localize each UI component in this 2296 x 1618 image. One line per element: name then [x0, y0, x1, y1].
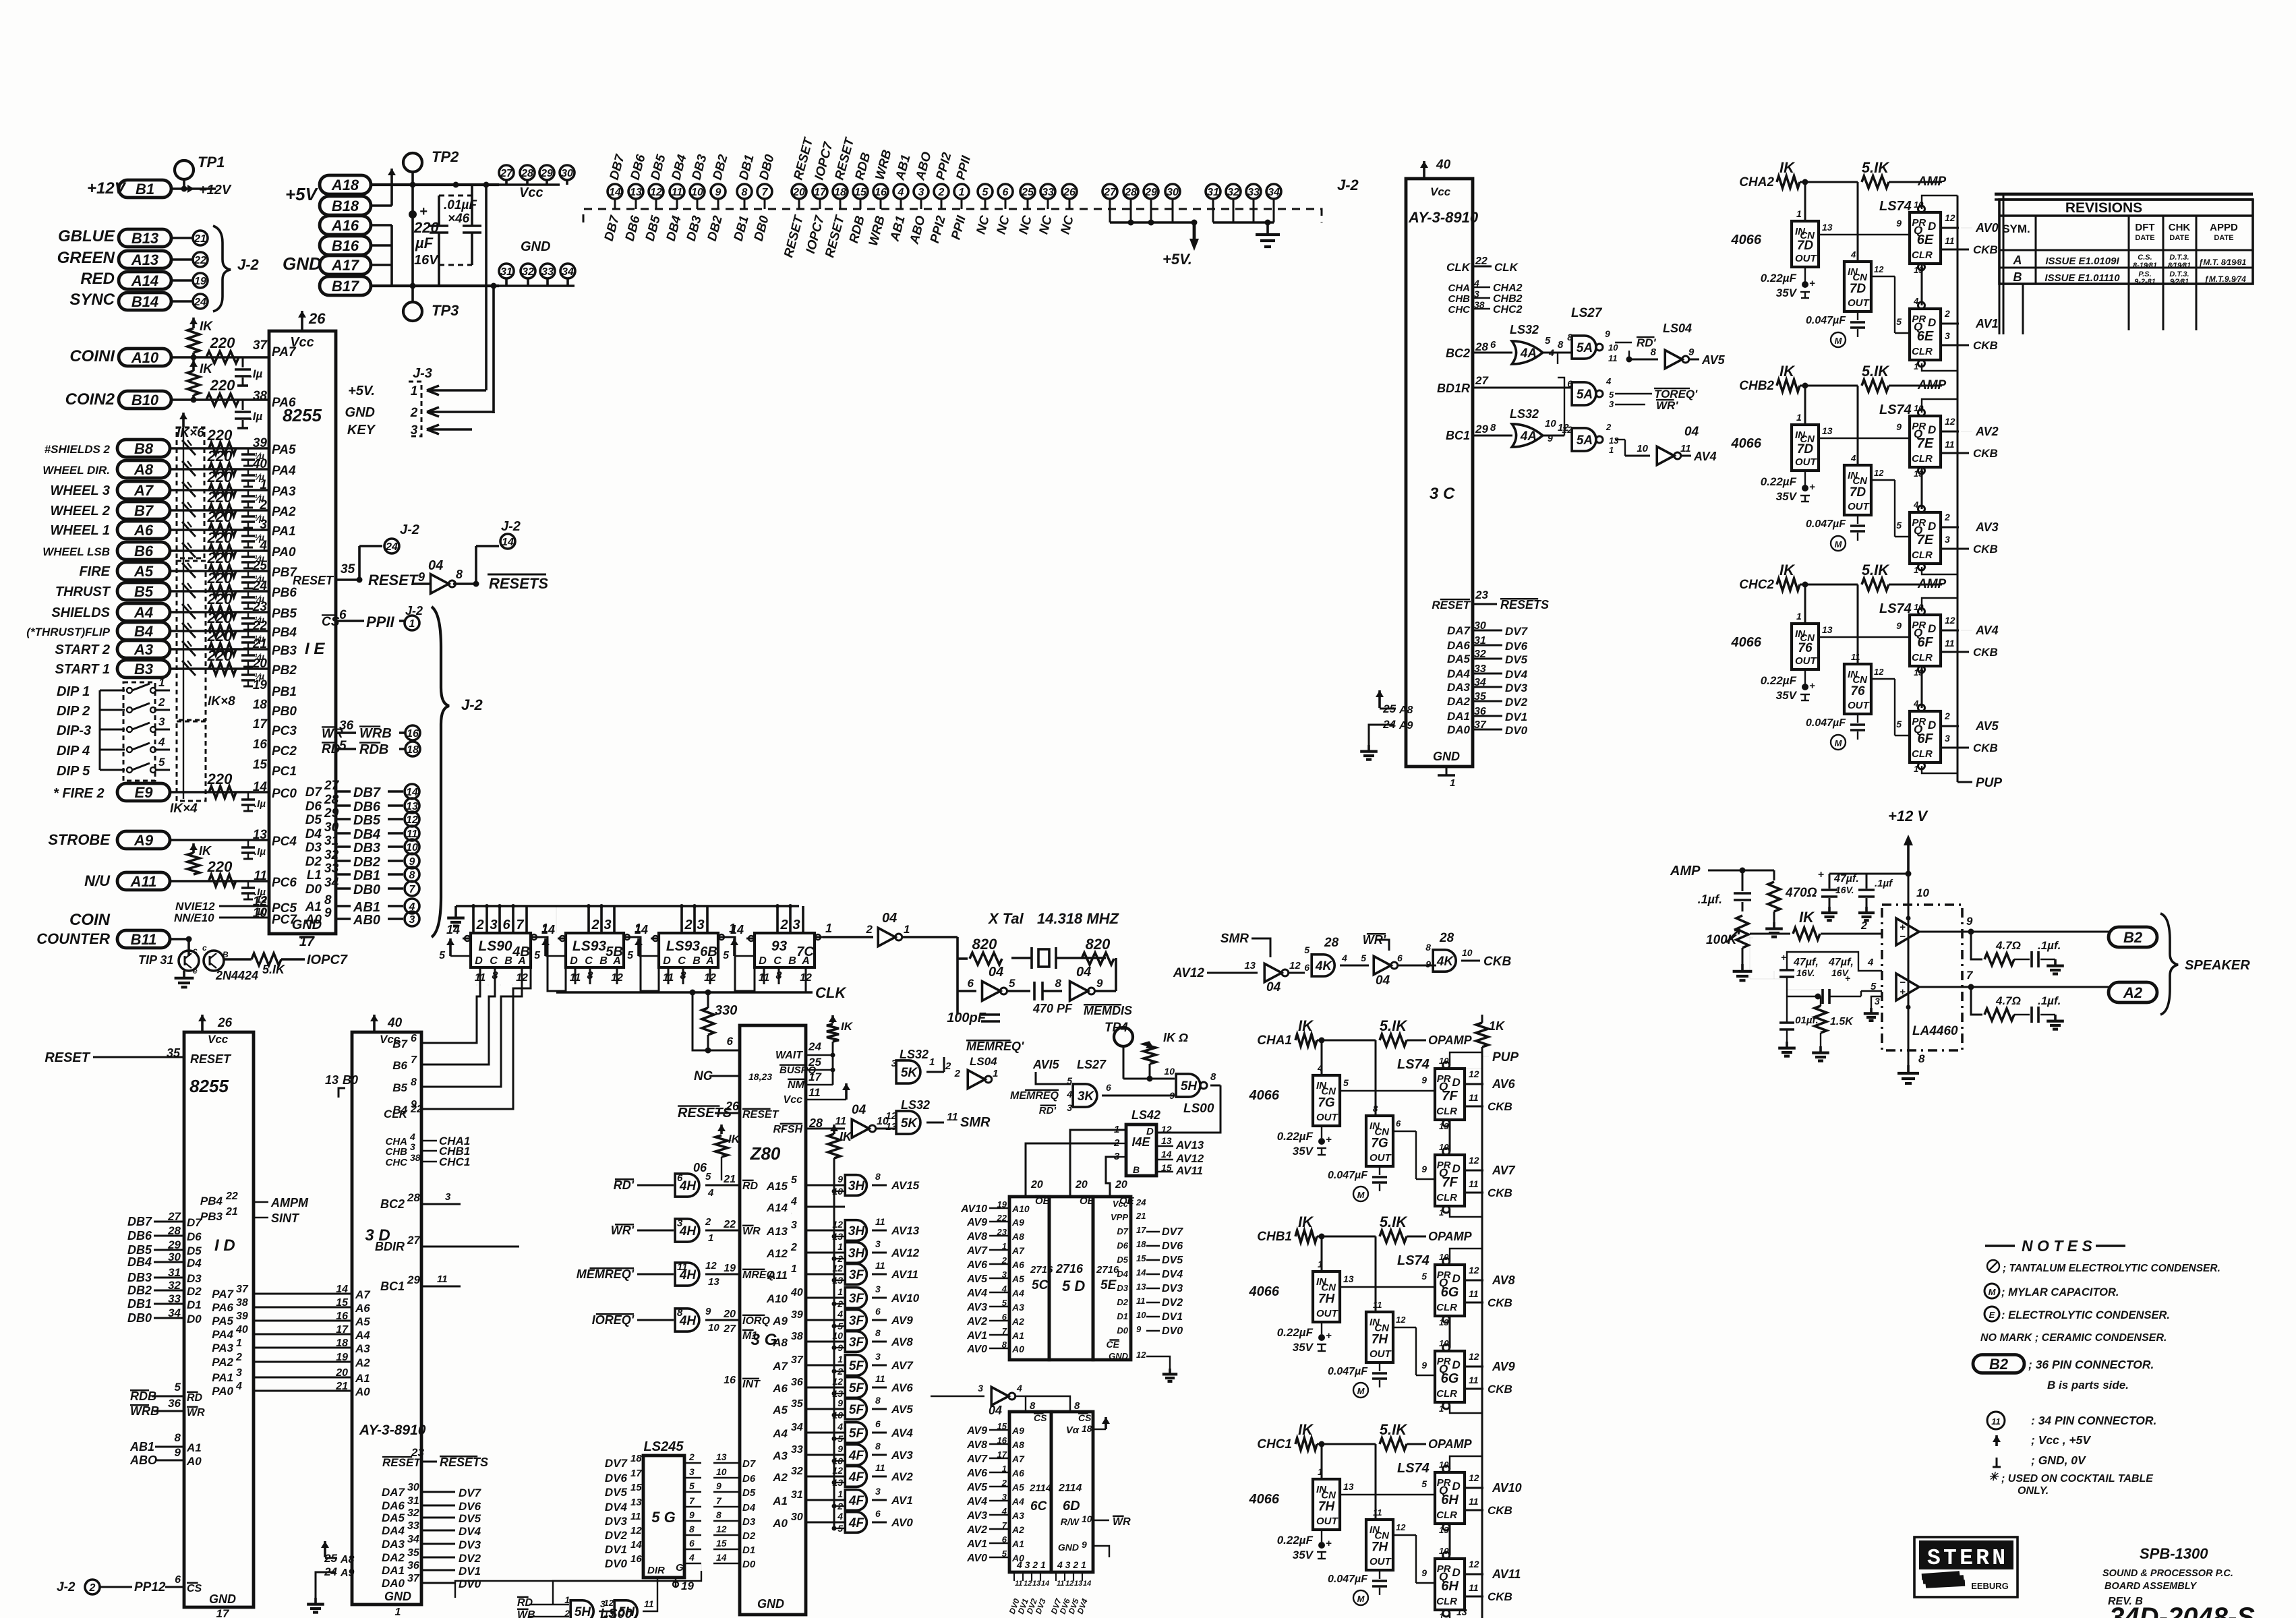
svg-text:11: 11 — [1469, 1178, 1479, 1189]
svg-text:RESET: RESET — [368, 572, 419, 589]
svg-text:#SHIELDS 2: #SHIELDS 2 — [45, 443, 111, 456]
svg-text:D: D — [1452, 1162, 1461, 1175]
svg-text:4: 4 — [707, 1187, 714, 1199]
svg-text:D3: D3 — [742, 1516, 756, 1528]
svg-text:5: 5 — [982, 187, 989, 198]
J-2 pin 24 — [384, 539, 399, 553]
svg-text:A11: A11 — [130, 873, 157, 890]
svg-text:17: 17 — [630, 1468, 642, 1479]
svg-text:1.5K: 1.5K — [1830, 1016, 1854, 1027]
svg-text:3: 3 — [791, 1220, 797, 1231]
svg-text:DA5: DA5 — [382, 1511, 405, 1524]
svg-text:B5: B5 — [134, 583, 154, 600]
svg-text:28: 28 — [1124, 187, 1137, 198]
svg-text:7: 7 — [716, 1495, 722, 1506]
flip-flop 6Fa — [1910, 615, 1941, 666]
svg-text:AV3: AV3 — [1975, 520, 1999, 534]
svg-text:7: 7 — [689, 1495, 695, 1506]
svg-text:AV11: AV11 — [891, 1268, 918, 1281]
svg-text:D5: D5 — [305, 813, 322, 827]
svg-text:4: 4 — [837, 1421, 843, 1432]
svg-text:8: 8 — [1558, 339, 1564, 351]
svg-text:AV4: AV4 — [1975, 624, 1999, 637]
svg-text:38: 38 — [410, 1152, 421, 1163]
svg-text:A2: A2 — [772, 1471, 788, 1484]
op-amp B — [1896, 973, 1919, 1000]
svg-text:WR': WR' — [1656, 399, 1678, 412]
vcc arrow z80 pin11 — [845, 1083, 848, 1100]
svg-text:D: D — [1928, 719, 1936, 731]
svg-text:CHB1: CHB1 — [1257, 1230, 1292, 1244]
svg-text:CKB: CKB — [1488, 1100, 1512, 1113]
svg-text:8: 8 — [1055, 977, 1062, 990]
svg-text:15: 15 — [997, 1421, 1007, 1431]
svg-text:OUT: OUT — [1370, 1348, 1392, 1360]
svg-text:¹⁄µ: ¹⁄µ — [254, 651, 264, 662]
gate 4F AV1 — [845, 1490, 866, 1511]
svg-text:RD': RD' — [1039, 1105, 1057, 1116]
svg-text:9: 9 — [1896, 218, 1902, 229]
svg-text:1: 1 — [1796, 412, 1802, 423]
test point TP3 — [403, 302, 422, 321]
svg-text:IOPC7: IOPC7 — [307, 953, 348, 967]
svg-text:AB1: AB1 — [129, 1440, 154, 1454]
svg-text:9: 9 — [1425, 959, 1431, 969]
svg-text:LS74: LS74 — [1397, 1057, 1430, 1072]
svg-text:IK: IK — [728, 1133, 741, 1145]
svg-text:AV3: AV3 — [966, 1302, 987, 1313]
svg-text:8: 8 — [689, 1524, 695, 1534]
svg-text:WHEEL 2: WHEEL 2 — [50, 504, 110, 518]
pin 21 — [193, 231, 208, 245]
IC 7C 93 counter — [755, 933, 815, 967]
svg-text:DV4: DV4 — [605, 1501, 628, 1514]
svg-text:31: 31 — [1207, 187, 1219, 198]
svg-text:E: E — [1989, 1310, 1995, 1320]
svg-text:D: D — [1452, 1076, 1461, 1089]
svg-text:AV6: AV6 — [1492, 1077, 1516, 1091]
svg-text:AV6: AV6 — [966, 1468, 987, 1479]
svg-text:15: 15 — [854, 187, 867, 198]
svg-text:PA6: PA6 — [272, 396, 296, 410]
capacitor .1u B8 — [247, 448, 249, 454]
svg-text:21: 21 — [335, 1381, 348, 1392]
svg-text:4: 4 — [1867, 957, 1874, 968]
svg-text:7H: 7H — [1372, 1333, 1389, 1347]
brace J-2 outputs — [432, 607, 449, 937]
svg-text:GND: GND — [209, 1592, 236, 1606]
svg-text:PC6: PC6 — [272, 876, 297, 890]
svg-text:11: 11 — [808, 1086, 821, 1099]
svg-text:A1: A1 — [772, 1495, 788, 1507]
svg-text:IK: IK — [200, 362, 213, 376]
svg-text:5F: 5F — [849, 1427, 865, 1441]
svg-text:35V: 35V — [1776, 490, 1798, 503]
svg-text:PP12: PP12 — [134, 1580, 166, 1594]
flip-flop 7F — [1435, 1069, 1465, 1120]
svg-text:11: 11 — [630, 1511, 641, 1522]
svg-text:J-2: J-2 — [400, 522, 419, 537]
svg-text:5.IK: 5.IK — [1862, 363, 1890, 380]
svg-text:1: 1 — [837, 1354, 843, 1365]
svg-text:AMPM: AMPM — [270, 1196, 309, 1209]
svg-text:1: 1 — [158, 676, 165, 689]
svg-text:PB3: PB3 — [272, 644, 297, 658]
svg-text:A4: A4 — [1011, 1496, 1024, 1507]
svg-text:D1: D1 — [187, 1298, 202, 1311]
svg-text:B4: B4 — [134, 623, 153, 640]
svg-text:−: − — [1900, 931, 1906, 942]
svg-text:CKB: CKB — [1488, 1590, 1512, 1603]
svg-text:35: 35 — [341, 562, 355, 576]
svg-text:DV6: DV6 — [1505, 640, 1528, 653]
label CLK wire — [556, 991, 813, 994]
svg-text:B: B — [504, 955, 512, 967]
svg-text:ABO: ABO — [913, 150, 935, 182]
svg-text:47µf,: 47µf, — [1828, 957, 1854, 968]
svg-text:0.22µF: 0.22µF — [1761, 475, 1797, 488]
IC 6C 2114 — [1009, 1412, 1051, 1572]
svg-text:A7: A7 — [772, 1360, 788, 1373]
gate 5F AV5 — [845, 1399, 866, 1420]
svg-text:1: 1 — [409, 618, 415, 630]
IC 3C AY-3-8910 — [1406, 179, 1473, 767]
svg-text:100pF: 100pF — [947, 1011, 987, 1025]
svg-text:B11: B11 — [131, 931, 157, 948]
svg-text:PPII: PPII — [366, 613, 394, 630]
svg-text:8: 8 — [411, 1077, 417, 1088]
svg-text:9: 9 — [1896, 620, 1902, 631]
svg-text:36: 36 — [791, 1377, 803, 1388]
svg-text:12: 12 — [832, 1376, 843, 1387]
svg-text:A4: A4 — [355, 1329, 370, 1342]
J-2 pin 9 — [405, 853, 419, 868]
svg-text:PC2: PC2 — [272, 744, 297, 758]
resistor array 1Kx6 box — [177, 427, 204, 558]
svg-text:NC: NC — [994, 214, 1012, 236]
svg-text:12: 12 — [1874, 667, 1884, 677]
svg-text:2: 2 — [1001, 1255, 1007, 1265]
svg-text:CLR: CLR — [1436, 1192, 1457, 1203]
svg-text:GREEN: GREEN — [57, 249, 115, 267]
svg-text:3: 3 — [891, 1058, 897, 1069]
IC 1D 8255 — [184, 1032, 254, 1607]
svg-text:A3: A3 — [134, 641, 153, 658]
svg-text:1: 1 — [1796, 208, 1802, 219]
svg-text:¹⁄µ: ¹⁄µ — [254, 573, 264, 584]
gate 5H bottom right — [614, 1600, 637, 1618]
svg-text:A0: A0 — [1011, 1344, 1024, 1354]
svg-text:M: M — [1835, 539, 1843, 549]
svg-text:6: 6 — [875, 1508, 881, 1519]
svg-text:3: 3 — [1002, 1269, 1007, 1280]
wire ff chain CHB1 — [1449, 1316, 1451, 1348]
svg-text:AV0: AV0 — [966, 1344, 987, 1355]
svg-text:AV7: AV7 — [966, 1454, 988, 1465]
svg-text:10: 10 — [1462, 947, 1473, 958]
svg-text:32: 32 — [791, 1466, 803, 1477]
svg-text:PA2: PA2 — [212, 1356, 233, 1369]
svg-text:SMR: SMR — [1220, 932, 1249, 946]
svg-text:7D: 7D — [1850, 282, 1866, 296]
svg-text:18: 18 — [336, 1338, 348, 1349]
svg-text:14: 14 — [1041, 1580, 1049, 1588]
resistor 5.1K CHA2 — [1862, 176, 1889, 188]
svg-text:A3: A3 — [1011, 1302, 1024, 1313]
svg-text:A1: A1 — [355, 1372, 370, 1385]
wire J-3 +5V — [485, 378, 488, 390]
svg-text:9: 9 — [1136, 1324, 1142, 1334]
svg-text:SPB-1300: SPB-1300 — [2140, 1545, 2208, 1562]
svg-text:GND: GND — [283, 253, 322, 274]
J-2 pin 12 — [405, 812, 419, 827]
svg-text:27: 27 — [407, 1234, 421, 1247]
svg-text:2: 2 — [89, 1582, 96, 1594]
svg-text:17: 17 — [808, 1071, 822, 1083]
svg-text:12: 12 — [1469, 1155, 1479, 1166]
svg-text:1: 1 — [837, 1489, 843, 1499]
capacitor 0.047uF CHA2 — [1857, 311, 1858, 320]
svg-text:IORQ: IORQ — [742, 1315, 770, 1327]
svg-text:32: 32 — [522, 266, 534, 278]
svg-text:3: 3 — [978, 1383, 983, 1394]
J-2 pin 15 RDB — [853, 184, 868, 199]
svg-text:M: M — [1357, 1594, 1365, 1604]
svg-text:.01µF: .01µF — [444, 198, 477, 212]
svg-text:AV2: AV2 — [891, 1470, 913, 1483]
svg-text:CLK: CLK — [1494, 261, 1519, 274]
svg-text:13: 13 — [1822, 425, 1833, 436]
svg-text:5: 5 — [1421, 1478, 1427, 1489]
svg-text:29: 29 — [1475, 423, 1488, 436]
svg-text:4: 4 — [1606, 376, 1612, 386]
svg-text:12: 12 — [1945, 416, 1955, 427]
svg-text:D1: D1 — [742, 1545, 755, 1556]
capacitor 0.22uF CHB2 — [1804, 471, 1806, 487]
svg-text:14: 14 — [541, 923, 555, 936]
svg-text:3 C: 3 C — [1430, 485, 1455, 503]
svg-text:04: 04 — [989, 965, 1003, 980]
svg-text:4: 4 — [235, 1381, 242, 1392]
svg-text:A: A — [612, 955, 621, 967]
svg-text:SHIELDS: SHIELDS — [51, 605, 110, 620]
svg-text:04: 04 — [852, 1103, 866, 1117]
inverter 04 av12 — [1264, 963, 1282, 982]
svg-text:24: 24 — [1136, 1197, 1146, 1207]
svg-text:8: 8 — [875, 1395, 881, 1406]
svg-text:29: 29 — [407, 1274, 420, 1286]
svg-text:.Iµ: .Iµ — [249, 410, 262, 423]
svg-text:A: A — [517, 955, 526, 967]
svg-text:J-3: J-3 — [413, 366, 432, 381]
svg-text:AV7: AV7 — [891, 1359, 914, 1372]
svg-text:PA7: PA7 — [212, 1288, 234, 1300]
svg-text:CKB: CKB — [1973, 646, 1998, 659]
svg-text:WR: WR — [1113, 1516, 1131, 1528]
svg-text:LS245: LS245 — [644, 1439, 684, 1454]
svg-text:11: 11 — [1469, 1375, 1479, 1385]
svg-text:04: 04 — [882, 911, 897, 926]
svg-text:1: 1 — [1914, 361, 1918, 371]
LA4460 output B — [1919, 986, 1971, 988]
svg-text:16V.: 16V. — [1796, 967, 1815, 978]
J-2 pin 12 DB5 — [649, 184, 664, 199]
svg-text:11: 11 — [437, 1274, 448, 1285]
svg-text:24: 24 — [808, 1040, 821, 1053]
svg-text:37: 37 — [253, 338, 268, 353]
svg-text:7: 7 — [411, 1054, 417, 1066]
svg-text:26: 26 — [725, 1100, 740, 1113]
svg-text:5: 5 — [627, 950, 634, 961]
svg-text:GND: GND — [384, 1590, 411, 1603]
svg-text:14: 14 — [609, 187, 621, 198]
svg-text:10: 10 — [406, 842, 418, 853]
svg-text:16: 16 — [997, 1435, 1007, 1445]
svg-text:RESETS: RESETS — [1500, 598, 1549, 611]
svg-text:9: 9 — [1082, 1539, 1087, 1550]
svg-text:31: 31 — [500, 266, 512, 278]
svg-text:B6: B6 — [134, 543, 154, 560]
resistor 1K CHB2 — [1777, 380, 1800, 392]
svg-text:×46: ×46 — [448, 212, 470, 226]
svg-text:DV0: DV0 — [459, 1578, 481, 1590]
svg-text:8: 8 — [175, 1431, 181, 1444]
svg-text:D2: D2 — [1117, 1297, 1128, 1307]
ground transistor — [183, 971, 185, 978]
svg-text:PC3: PC3 — [272, 724, 297, 738]
svg-text:9: 9 — [1421, 1075, 1427, 1085]
svg-text:DV7: DV7 — [1162, 1226, 1183, 1238]
svg-text:5A: 5A — [1577, 433, 1593, 448]
svg-text:CHK: CHK — [2169, 222, 2191, 233]
svg-text:OE: OE — [1035, 1195, 1051, 1207]
potentiometer 100K — [1736, 916, 1748, 948]
svg-text:0.22µF: 0.22µF — [1761, 674, 1797, 687]
svg-text:RDB: RDB — [359, 742, 388, 757]
svg-text:A12: A12 — [766, 1247, 788, 1260]
svg-text:LS04: LS04 — [970, 1055, 997, 1068]
svg-text:AV0: AV0 — [1975, 221, 1999, 235]
svg-text:10: 10 — [1164, 1066, 1175, 1077]
svg-text:DIP 2: DIP 2 — [57, 704, 90, 719]
4B pin 5 vcc — [449, 938, 452, 956]
svg-text:AVI2: AVI2 — [1214, 977, 1214, 978]
svg-text:5: 5 — [175, 1381, 181, 1394]
svg-text:11: 11 — [875, 1216, 885, 1227]
flip-flop 6Fb — [1910, 711, 1941, 762]
flip-flop 6G — [1435, 1265, 1465, 1316]
svg-text:CLK: CLK — [742, 1122, 743, 1123]
svg-text:CHC2: CHC2 — [1739, 578, 1774, 592]
inverter 04 reset — [431, 574, 449, 594]
svg-text:4066: 4066 — [1249, 1284, 1280, 1299]
svg-text:COINI: COINI — [69, 347, 115, 365]
svg-text:21: 21 — [194, 233, 206, 245]
svg-text:LS42: LS42 — [1131, 1108, 1160, 1122]
svg-text:D: D — [1452, 1272, 1461, 1285]
svg-text:13: 13 — [1032, 1580, 1040, 1588]
svg-text:9: 9 — [715, 187, 722, 198]
svg-text:18: 18 — [1082, 1423, 1092, 1434]
resistor 220 A5 — [209, 565, 236, 577]
resistor 1K wait pullup — [831, 1015, 834, 1023]
svg-text:9: 9 — [1688, 347, 1695, 358]
svg-text:8: 8 — [1918, 1052, 1925, 1065]
J-2 pin 10 — [405, 839, 419, 854]
gate 3H AV12 — [845, 1242, 866, 1263]
svg-text:5: 5 — [158, 756, 165, 769]
svg-text:C: C — [678, 955, 686, 967]
svg-text:16V.: 16V. — [1835, 885, 1854, 895]
svg-text:27: 27 — [167, 1210, 181, 1223]
svg-text:AV5: AV5 — [1701, 353, 1726, 367]
svg-text:Vcc: Vcc — [1113, 1199, 1129, 1209]
svg-text:9: 9 — [837, 1443, 843, 1454]
svg-text:.1µf: .1µf — [1875, 878, 1893, 889]
svg-text:5.IK: 5.IK — [1380, 1421, 1408, 1438]
gate 4K second — [1433, 950, 1456, 971]
note 34 pin connector — [1987, 1412, 2005, 1429]
zobel B2 — [1971, 932, 1982, 959]
svg-text:27: 27 — [1103, 187, 1117, 198]
svg-text:DIR: DIR — [647, 1565, 665, 1576]
svg-text:5: 5 — [339, 739, 347, 753]
svg-text:6: 6 — [875, 1418, 881, 1429]
svg-text:GND: GND — [1109, 1351, 1129, 1361]
svg-text:10: 10 — [1439, 1252, 1449, 1262]
svg-text:CKB: CKB — [1488, 1383, 1512, 1396]
svg-text:DV4: DV4 — [459, 1525, 481, 1538]
svg-text:1: 1 — [904, 923, 910, 936]
svg-text:CKB: CKB — [1973, 447, 1998, 460]
svg-text:LA4460: LA4460 — [1912, 1024, 1958, 1038]
svg-text:220: 220 — [207, 448, 233, 465]
capacitor 0.047uF CHC2 — [1857, 714, 1858, 723]
svg-text:DB0: DB0 — [752, 214, 772, 243]
svg-text:5.IK: 5.IK — [1862, 562, 1890, 578]
svg-text:D: D — [759, 955, 767, 967]
svg-text:7: 7 — [1966, 969, 1974, 982]
resistor network element A6 — [182, 522, 196, 537]
svg-text:+: + — [419, 204, 428, 219]
J-2 pin 4 — [405, 899, 419, 913]
svg-text:START 1: START 1 — [55, 662, 111, 677]
svg-text:11: 11 — [1608, 353, 1618, 363]
svg-text:12: 12 — [832, 1219, 843, 1230]
svg-text:D: D — [1452, 1566, 1461, 1579]
svg-text:DFT: DFT — [2135, 222, 2154, 233]
svg-text:WRB: WRB — [359, 726, 392, 741]
flip-flop 6H — [1435, 1559, 1465, 1610]
wire Vcc down to J-3 — [485, 185, 488, 378]
svg-text:AB1: AB1 — [887, 214, 908, 243]
svg-text:35V: 35V — [1293, 1549, 1314, 1561]
svg-text:NC: NC — [1036, 214, 1055, 236]
svg-text:13: 13 — [1609, 436, 1619, 446]
svg-text:RD': RD' — [614, 1178, 635, 1192]
svg-text:CLK: CLK — [1446, 261, 1471, 274]
svg-text:AV9: AV9 — [966, 1425, 987, 1437]
svg-text:N O T E S: N O T E S — [2022, 1237, 2092, 1255]
resistor 1K CHA1 — [1295, 1034, 1317, 1046]
svg-text:6: 6 — [1002, 1312, 1007, 1322]
svg-text:+: + — [1326, 1330, 1332, 1342]
svg-text:ISSUE E1.0109I: ISSUE E1.0109I — [2045, 256, 2119, 267]
svg-text:12: 12 — [1562, 424, 1572, 435]
svg-text:9: 9 — [837, 1398, 843, 1408]
svg-text:AY-3-8910: AY-3-8910 — [359, 1422, 426, 1438]
svg-text:IK: IK — [1799, 909, 1815, 926]
